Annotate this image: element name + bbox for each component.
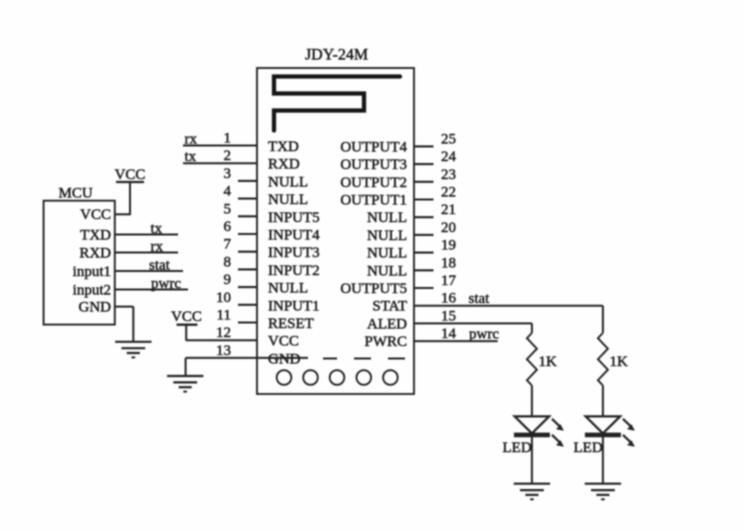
- svg-text:stat: stat: [469, 291, 491, 307]
- svg-text:TXD: TXD: [268, 139, 299, 155]
- pin 21 NULL: stub, number, label: [414, 216, 434, 218]
- pin 23 OUTPUT2: stub, number, label: [414, 181, 434, 183]
- svg-text:2: 2: [224, 148, 232, 164]
- svg-text:19: 19: [441, 238, 456, 254]
- svg-text:17: 17: [441, 273, 457, 289]
- svg-text:OUTPUT1: OUTPUT1: [340, 193, 407, 209]
- pin 4 NULL: stub, number, label: [238, 198, 258, 200]
- svg-text:INPUT2: INPUT2: [268, 263, 320, 279]
- pin 20 NULL: stub, number, label: [414, 234, 434, 236]
- svg-text:1K: 1K: [610, 354, 629, 370]
- svg-text:input1: input1: [73, 264, 111, 280]
- svg-text:25: 25: [441, 131, 456, 147]
- svg-text:13: 13: [216, 343, 231, 359]
- svg-text:TXD: TXD: [80, 227, 111, 243]
- ground (MCU): [115, 341, 151, 343]
- svg-text:24: 24: [441, 149, 457, 165]
- VCC power symbol (module side): [177, 324, 198, 326]
- LED D2 (right): [586, 416, 620, 433]
- svg-text:VCC: VCC: [268, 334, 299, 350]
- svg-text:MCU: MCU: [59, 186, 93, 202]
- resistor R2 1K (right): [598, 333, 608, 386]
- svg-text:OUTPUT2: OUTPUT2: [340, 175, 407, 191]
- svg-text:OUTPUT4: OUTPUT4: [340, 139, 407, 155]
- wire D2 to ground: [602, 435, 604, 484]
- svg-text:GND: GND: [268, 351, 301, 367]
- svg-text:22: 22: [441, 185, 456, 201]
- wire D1 to ground: [531, 435, 533, 484]
- PCB antenna meander: [274, 77, 400, 131]
- wire pin13 down to ground: [185, 358, 187, 376]
- VCC power symbol (MCU side): [116, 181, 144, 183]
- svg-text:VCC: VCC: [171, 309, 202, 325]
- svg-text:pwrc: pwrc: [469, 327, 499, 343]
- bottom pads (5 circles): [277, 370, 292, 385]
- wire MCU TXD (net tx): [115, 234, 178, 236]
- svg-text:NULL: NULL: [268, 281, 308, 297]
- svg-text:INPUT3: INPUT3: [268, 245, 320, 261]
- svg-text:6: 6: [224, 219, 232, 235]
- svg-text:INPUT1: INPUT1: [268, 298, 320, 314]
- svg-text:LED: LED: [503, 440, 532, 456]
- svg-text:INPUT5: INPUT5: [268, 210, 320, 226]
- svg-text:1: 1: [224, 131, 232, 147]
- wire MCU input1 (net stat): [115, 270, 183, 272]
- wire pin15 to R1: [531, 323, 533, 333]
- ground (module): [167, 375, 203, 377]
- pin 25 OUTPUT4: stub, number, label: [414, 145, 434, 147]
- svg-text:stat: stat: [149, 258, 171, 274]
- pin 8 INPUT2: stub, number, label: [238, 268, 258, 270]
- pin 15 ALED: wire, number: [414, 322, 532, 324]
- svg-text:OUTPUT5: OUTPUT5: [340, 281, 407, 297]
- svg-text:ALED: ALED: [367, 316, 407, 332]
- LED D1 (left): [515, 416, 549, 433]
- svg-text:NULL: NULL: [367, 246, 407, 262]
- svg-text:INPUT4: INPUT4: [268, 228, 320, 244]
- MCU block: [44, 201, 115, 325]
- pin 9 NULL: stub, number, label: [238, 286, 258, 288]
- svg-text:1K: 1K: [539, 354, 558, 370]
- wire MCU input2 (net pwrc): [115, 289, 188, 291]
- svg-text:7: 7: [224, 237, 232, 253]
- svg-text:12: 12: [216, 325, 231, 341]
- svg-text:14: 14: [441, 326, 457, 342]
- svg-text:21: 21: [441, 202, 456, 218]
- svg-text:16: 16: [441, 291, 457, 307]
- svg-text:OUTPUT3: OUTPUT3: [340, 157, 407, 173]
- pin 17 OUTPUT5: stub, number, label: [414, 287, 434, 289]
- pin 13 GND: wire through label, number: [186, 357, 308, 359]
- svg-text:VCC: VCC: [80, 207, 111, 223]
- svg-text:15: 15: [441, 308, 456, 324]
- svg-text:LED: LED: [574, 440, 603, 456]
- wire R1 to LED D1: [531, 386, 533, 417]
- pin 19 NULL: stub, number, label: [414, 252, 434, 254]
- pin 1 TXD: wire, number, net label rx: [183, 145, 257, 147]
- svg-text:tx: tx: [185, 149, 197, 165]
- svg-text:9: 9: [224, 272, 232, 288]
- svg-text:10: 10: [216, 290, 231, 306]
- svg-text:4: 4: [224, 184, 232, 200]
- svg-text:NULL: NULL: [268, 192, 308, 208]
- module JDY-24M box: [257, 68, 414, 394]
- svg-text:23: 23: [441, 167, 456, 183]
- svg-text:pwrc: pwrc: [151, 276, 181, 292]
- wire MCU GND down: [115, 306, 134, 308]
- wire MCU RXD (net rx): [115, 252, 178, 254]
- svg-text:18: 18: [441, 255, 456, 271]
- svg-text:NULL: NULL: [268, 174, 308, 190]
- pin 14 PWRC: wire, number, net label pwrc: [414, 340, 498, 342]
- svg-text:VCC: VCC: [115, 167, 146, 183]
- ground (D2): [585, 483, 621, 485]
- svg-text:NULL: NULL: [367, 263, 407, 279]
- resistor R1 1K (left): [527, 333, 537, 386]
- svg-text:RESET: RESET: [268, 316, 314, 332]
- svg-text:STAT: STAT: [372, 299, 407, 315]
- svg-text:GND: GND: [79, 300, 112, 316]
- wire R2 to LED D2: [602, 386, 604, 417]
- wire MCU VCC to VCC symbol: [115, 213, 130, 215]
- svg-text:NULL: NULL: [367, 228, 407, 244]
- pin 10 INPUT1: stub, number, label: [238, 304, 258, 306]
- pin 16 STAT: wire, number, net label stat: [414, 305, 603, 307]
- pin 18 NULL: stub, number, label: [414, 269, 434, 271]
- svg-text:11: 11: [217, 308, 231, 324]
- pin 22 OUTPUT1: stub, number, label: [414, 198, 434, 200]
- svg-text:5: 5: [224, 201, 232, 217]
- svg-text:3: 3: [224, 166, 232, 182]
- pin 5 INPUT5: stub, number, label: [238, 215, 258, 217]
- pin 6 INPUT4: stub, number, label: [238, 233, 258, 235]
- svg-text:rx: rx: [185, 132, 198, 148]
- pin 3 NULL: stub, number, label: [238, 180, 258, 182]
- svg-text:8: 8: [224, 254, 232, 270]
- pin 24 OUTPUT3: stub, number, label: [414, 163, 434, 165]
- svg-text:rx: rx: [151, 239, 164, 255]
- svg-text:NULL: NULL: [367, 210, 407, 226]
- unused pin dashes: [323, 358, 337, 360]
- svg-text:RXD: RXD: [268, 157, 300, 173]
- pin 2 RXD: wire, number, net label tx: [183, 162, 257, 164]
- svg-text:20: 20: [441, 220, 456, 236]
- pin 12 VCC: wire, number, label: [186, 339, 258, 341]
- svg-text:input2: input2: [73, 282, 111, 298]
- ground (D1): [514, 483, 550, 485]
- wire stat net: pin16 to R2: [602, 306, 604, 333]
- svg-text:PWRC: PWRC: [364, 334, 407, 350]
- svg-text:RXD: RXD: [79, 245, 111, 261]
- svg-text:JDY-24M: JDY-24M: [305, 47, 368, 64]
- pin 7 INPUT3: stub, number, label: [238, 251, 258, 253]
- svg-text:tx: tx: [151, 221, 163, 237]
- pin 11 RESET: stub, number, label: [238, 321, 258, 323]
